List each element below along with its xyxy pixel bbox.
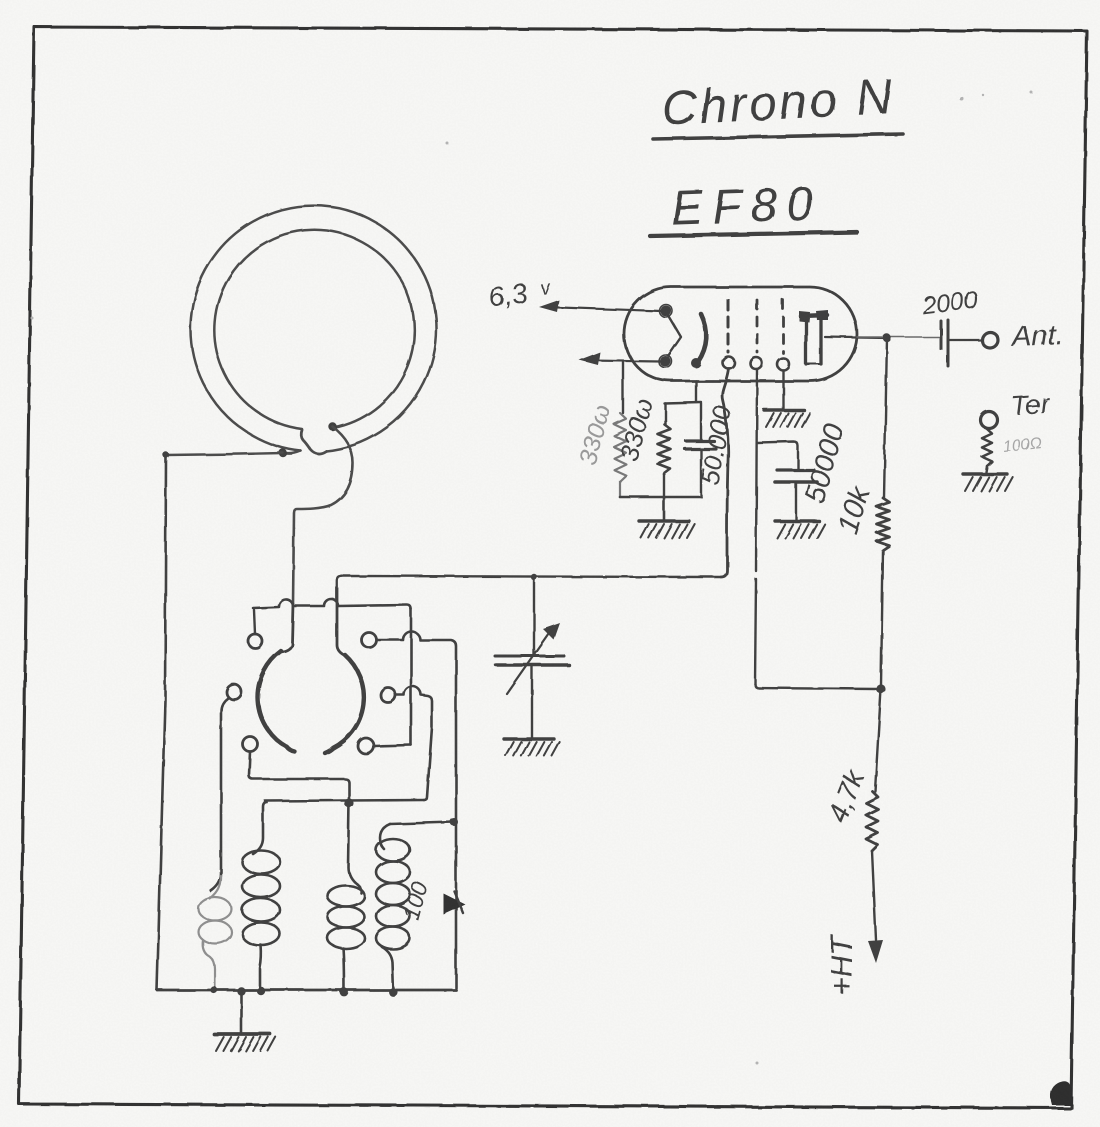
ground (cathode network) (639, 521, 695, 538)
ground (Ter) (963, 474, 1013, 491)
label "330ω" for R2 (614, 395, 659, 464)
label "6,3v" heater supply (487, 277, 553, 312)
resistor R4 4,7k (866, 791, 878, 851)
wire: grid2 lead to anode-load node (755, 684, 877, 689)
resistor R4 4,7k lead (875, 689, 881, 791)
capacitor C1 (cathode bypass) top lead (700, 403, 702, 439)
wire: C4 to antenna terminal (949, 339, 981, 341)
wire: loop outer end left to left rail (166, 453, 283, 455)
wire: cathode lead down from tube (695, 381, 697, 402)
resistor R3 10k (877, 498, 890, 686)
coil L4 (3 turns) (328, 884, 365, 992)
terminal Ant. (982, 332, 998, 348)
wire: contact 6 right to vertical drop (374, 745, 411, 746)
tube heater pin (bottom) (659, 355, 672, 368)
label "10k" for R3 (832, 482, 877, 538)
switch contact 6 (358, 738, 374, 754)
node: tuning bus tap (531, 574, 537, 580)
wire: grid1 lead (50.000) wavy down to tuning bus (721, 369, 729, 577)
coil L2 (light, 2 turns) (199, 876, 232, 988)
node: left rail corner (163, 452, 169, 458)
tube heater filament (668, 315, 681, 356)
rotary switch S1 rotor left arc (258, 651, 295, 752)
wire: anode lead out of tube (825, 337, 940, 338)
wire: rotor neck right rising to horizontal feed (337, 576, 346, 656)
coil L5 (5 turns) (376, 824, 410, 992)
loop antenna crossover wiggle (301, 430, 326, 454)
wire: L5 top to right rail (390, 822, 454, 824)
wire: bus ground stub (240, 991, 243, 1032)
wire: anode node down to R3 (884, 338, 887, 498)
wire: heater top lead with arrow (539, 300, 661, 312)
wire: contact 2 right with hop, down right rail (377, 632, 456, 989)
node: L5 bottom on bus (389, 988, 398, 997)
wire: top rail of cathode network (664, 402, 701, 403)
tube heater pin (top) (660, 305, 673, 318)
wire: R4 down to +HT arrow (868, 851, 883, 963)
label "4,7k" for R4 (822, 764, 871, 827)
ground (main bus) (214, 1034, 276, 1051)
wire: CV1 bottom lead (531, 666, 533, 738)
label "330ω" for R1 (574, 402, 617, 468)
node: L5 top on right rail (450, 818, 458, 826)
tube grid 2 (dashed) (750, 300, 762, 369)
capacitor C3 50000 plates (775, 470, 817, 482)
label "Chrono N" title (660, 70, 896, 136)
resistor R1 330ω (light) (614, 413, 626, 497)
wire: heater bottom lead with arrow (579, 352, 660, 365)
label "2000" for C4 (920, 286, 980, 321)
tube grid 1 (dashed) (723, 300, 735, 369)
switch contact 2 (362, 633, 377, 648)
wire: tuning bus horizontal (342, 576, 721, 577)
ground (CV1) (504, 739, 560, 756)
capacitor C4 2000 plates (941, 320, 948, 366)
node: screen/anode divider junction (876, 684, 885, 693)
wire: grid3 lead to ground (782, 370, 784, 408)
label "50.000" grid wire (694, 403, 737, 487)
wire: left rail down to bottom bus (157, 455, 166, 990)
wire: contact 5 down and right to coil L4 top (249, 752, 357, 884)
wire: variable capacitor top lead (533, 577, 535, 655)
loop antenna L1 outer turn (191, 206, 437, 454)
node: L4 bottom on bus (340, 988, 349, 997)
node: L3 bottom on bus (257, 987, 265, 995)
wire: coil top bus (contact4 net) (265, 800, 424, 801)
ground (grid 3) (764, 410, 810, 427)
switch contact 3 (227, 685, 242, 700)
wire: rotor neck left (from loop lead) (281, 604, 293, 652)
label "EF80" tube type (670, 177, 822, 235)
wire: ground stub of cathode network (663, 497, 666, 520)
tube anode plate (799, 310, 828, 364)
switch contact 4 (381, 688, 396, 703)
label "100Ω" for R5 (1002, 435, 1042, 456)
label "+HT" supply (824, 934, 859, 995)
tube grid 3 (dashed) (777, 300, 789, 370)
label "100" for L5 (398, 879, 433, 923)
variable capacitor CV1 arrow (507, 623, 560, 694)
wire: contact 4 right with hop, down to coil bus (396, 687, 432, 801)
tube cathode (691, 314, 706, 368)
capacitor C3 bottom lead (795, 483, 797, 520)
terminal Ter (981, 412, 998, 429)
wire: grid2 lead down (755, 369, 757, 684)
wire: bottom ground bus (157, 989, 456, 992)
wire: heater-return branch down to R1 (622, 361, 624, 413)
loop antenna L1 inner turn (214, 230, 414, 429)
variable capacitor CV1 plates (495, 656, 569, 665)
node: loop inner end terminal (329, 423, 337, 431)
node: coil L3/L4 feed junction (344, 798, 353, 807)
label "50000" for C3 (799, 421, 851, 507)
node: L2 bottom on bus (210, 986, 217, 993)
coil L3 (4 turns) (242, 802, 280, 990)
label "Ant." (1009, 319, 1064, 353)
capacitor C1 plates (685, 441, 716, 449)
rotary switch S1 rotor right arc (325, 655, 364, 753)
wire: switch top horizontal bus with two hops (253, 599, 411, 609)
label "Ter" (1010, 389, 1051, 422)
switch contact 5 (243, 737, 258, 752)
tube V1 EF80 envelope (624, 287, 857, 381)
resistor R2 330ω (658, 403, 671, 497)
tap arrow into right rail (443, 891, 465, 914)
switch contact 1 (248, 610, 262, 648)
capacitor C1 bottom lead (700, 450, 702, 497)
wire: grid2 to screen capacitor C3 (757, 442, 798, 469)
node: ground stub junction (237, 987, 245, 995)
resistor R5 100Ω (982, 429, 992, 472)
wire: loop inner end hook down to switch rotor (293, 427, 353, 604)
underline for Chrono N (653, 134, 903, 139)
node: loop outer end terminal (279, 449, 287, 457)
wire: bottom rail of cathode network (620, 496, 701, 499)
ground (C3) (775, 521, 825, 538)
node: anode junction (883, 334, 891, 342)
wire: contact 3 down to coil L2 (211, 698, 228, 891)
underline for EF80 (650, 232, 857, 236)
wire: right drop of top bus down to contact 6 wire (with crossings) (410, 609, 413, 745)
